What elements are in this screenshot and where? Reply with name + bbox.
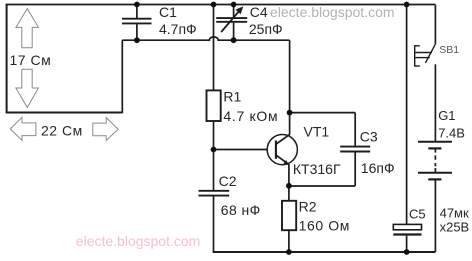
- wire base node to C2: [213, 150, 215, 191]
- switch SB1: [415, 44, 436, 66]
- capacitor C4 (trimmer): [216, 5, 247, 41]
- junction node C5 ground: [404, 249, 410, 255]
- wire base: [214, 149, 268, 151]
- svg-text:C3: C3: [360, 128, 378, 144]
- arrow left (antenna width): [10, 117, 36, 140]
- wire collector branch down from y=40 rail: [289, 40, 291, 134]
- junction node base/R1/C2: [211, 147, 217, 153]
- wire emitter down: [288, 164, 290, 201]
- wire C5 branch: [406, 5, 408, 225]
- wire R2 bottom: [288, 230, 290, 252]
- arrow down (antenna height): [16, 69, 39, 107]
- svg-text:electe.blogspot.com: electe.blogspot.com: [76, 233, 201, 249]
- svg-text:4.7 кОм: 4.7 кОм: [223, 108, 278, 124]
- arrow right (antenna width): [93, 118, 118, 141]
- wire battery to bottom rail: [434, 179, 436, 252]
- junction node emitter/C3: [286, 183, 292, 189]
- svg-text:C4: C4: [250, 4, 268, 20]
- antenna loop bottom edge: [6, 112, 122, 114]
- svg-text:SB1: SB1: [439, 44, 459, 56]
- wire R1 branch from top rail: [213, 5, 215, 91]
- svg-text:160 Ом: 160 Ом: [299, 217, 350, 233]
- svg-text:C1: C1: [159, 4, 177, 20]
- svg-text:17 См: 17 См: [10, 52, 52, 68]
- wire top rail: [6, 4, 436, 6]
- antenna loop right edge: [121, 40, 123, 113]
- transistor VT1: [267, 134, 297, 165]
- svg-text:47мк: 47мк: [440, 206, 469, 221]
- junction node C5 top: [404, 2, 410, 8]
- svg-text:25пФ: 25пФ: [249, 21, 283, 37]
- wire collector node to C3 top: [290, 112, 356, 114]
- svg-text:C2: C2: [219, 173, 237, 189]
- wire switch to battery: [434, 64, 436, 142]
- svg-text:R2: R2: [299, 198, 317, 214]
- antenna loop left edge: [6, 4, 8, 114]
- battery G1: [418, 142, 452, 180]
- arrow up (antenna height): [16, 9, 39, 48]
- svg-text:68 нФ: 68 нФ: [221, 202, 261, 218]
- capacitor C3: [340, 113, 370, 186]
- junction node collector/C3: [287, 110, 293, 116]
- capacitor C2: [199, 191, 230, 252]
- svg-text:electe.blogspot.com: electe.blogspot.com: [270, 4, 395, 20]
- wire C3 bottom to emitter node: [289, 185, 355, 187]
- wire right edge to switch: [434, 5, 436, 45]
- junction node C4 bottom: [231, 37, 237, 43]
- wire rail y=40 with hop over R1 branch: [122, 37, 289, 40]
- svg-text:7.4В: 7.4В: [438, 126, 465, 141]
- svg-text:22 См: 22 См: [41, 122, 83, 138]
- resistor R2: [282, 201, 296, 230]
- svg-text:R1: R1: [223, 89, 241, 105]
- capacitor C1: [122, 5, 152, 41]
- junction node C1 bottom: [134, 37, 140, 43]
- wire bottom rail: [213, 251, 436, 253]
- junction node C1 top: [134, 2, 140, 8]
- svg-text:х25В: х25В: [440, 220, 470, 235]
- svg-text:C5: C5: [409, 206, 426, 221]
- junction node R1 top: [211, 2, 217, 8]
- wire R1 bottom to base node: [213, 121, 215, 150]
- svg-text:16пФ: 16пФ: [361, 160, 395, 176]
- svg-text:G1: G1: [438, 108, 455, 123]
- resistor R1: [207, 90, 221, 121]
- svg-text:4.7пФ: 4.7пФ: [159, 21, 197, 37]
- junction node C4 top: [231, 2, 237, 8]
- svg-text:КТ316Г: КТ316Г: [293, 161, 341, 177]
- capacitor C5 (electrolytic): [393, 224, 421, 252]
- junction node R2 ground: [286, 249, 292, 255]
- svg-text:VT1: VT1: [304, 123, 330, 139]
